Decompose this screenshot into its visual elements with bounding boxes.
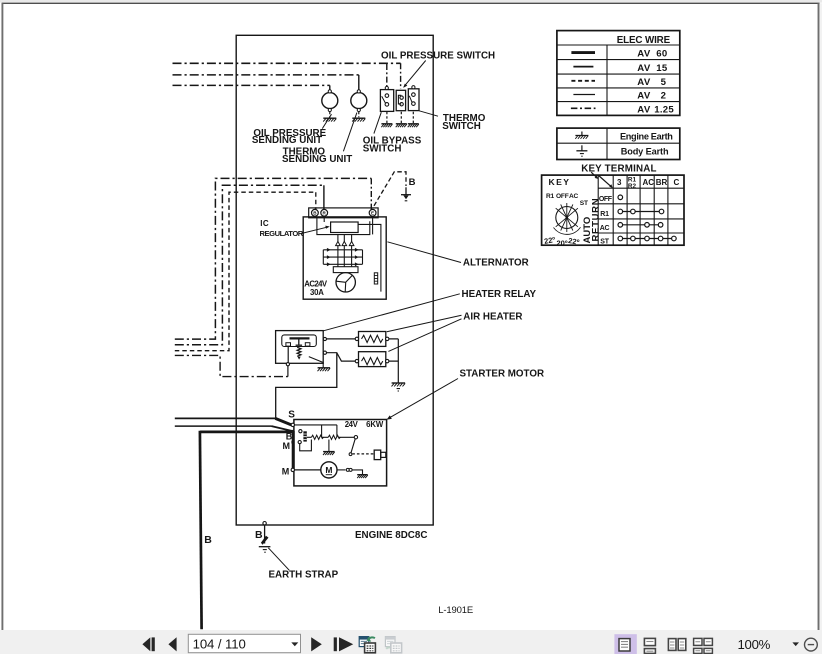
thermo switch ground stem bbox=[412, 112, 414, 123]
svg-text:M: M bbox=[283, 441, 291, 451]
ELEC WIRE legend table bbox=[557, 31, 680, 116]
alternator outer box bbox=[303, 217, 386, 299]
svg-text:OIL PRESSURE SWITCH: OIL PRESSURE SWITCH bbox=[381, 51, 495, 62]
earth strap terminal on engine boundary bbox=[263, 522, 266, 525]
heater relay right terminal upper bbox=[323, 337, 326, 340]
ground engine earth under oil pressure sending unit bbox=[323, 118, 336, 121]
svg-text:20º: 20º bbox=[557, 238, 568, 247]
wire cable L2 to starter B bbox=[175, 425, 272, 427]
wire bundle D dash-dot (to heater relay coil) bbox=[175, 355, 288, 376]
svg-text:AC: AC bbox=[643, 178, 655, 187]
air heater R1 (upper) bbox=[359, 332, 386, 347]
row AC contacts bbox=[620, 224, 660, 226]
alternator inner wire loop bbox=[317, 218, 370, 235]
coil R1 zigzag bbox=[311, 435, 323, 439]
ground engine earth under oil bypass switch bbox=[381, 124, 392, 127]
wire dashed diagonal to node B bbox=[374, 172, 406, 206]
oil pressure sending unit ground stem bbox=[329, 112, 331, 118]
wire M to motor bbox=[295, 469, 321, 471]
svg-text:B: B bbox=[255, 529, 263, 541]
wire W1 vertical drop to oil pressure switch bbox=[400, 63, 402, 89]
wire heater relay terminal to bundle D bbox=[287, 366, 289, 377]
alternator terminal strip bbox=[309, 208, 378, 218]
oil pressure switch bbox=[396, 90, 405, 110]
wire C vertical drop dashed bbox=[315, 192, 317, 209]
stator housing rect bbox=[333, 267, 358, 273]
svg-text:ST: ST bbox=[580, 200, 588, 207]
M terminal pair bbox=[291, 441, 294, 444]
wire L1 diagonal to S terminal bbox=[275, 418, 291, 425]
wire W1 branch drop to oil bypass switch bbox=[386, 64, 388, 86]
ground engine earth under heater relay bbox=[318, 368, 331, 371]
M terminal loop wire bbox=[300, 440, 312, 451]
alternator terminal B bbox=[312, 209, 319, 216]
starter internal thick cable bbox=[292, 431, 295, 470]
svg-text:5: 5 bbox=[661, 77, 667, 88]
toolbar zoom dropdown caret bbox=[792, 642, 799, 646]
svg-text:IC: IC bbox=[260, 219, 269, 228]
heater right bus wire bbox=[389, 339, 398, 383]
heater relay left terminal wire bbox=[287, 346, 289, 362]
svg-text:60: 60 bbox=[656, 49, 667, 60]
toolbar next view button (disabled) bbox=[385, 637, 401, 653]
toolbar last page button bbox=[334, 637, 354, 651]
key terminal header diagonal cell bbox=[599, 176, 612, 188]
leader earth strap bbox=[268, 548, 289, 571]
page right border bbox=[818, 3, 820, 630]
ground engine earth under thermo switch bbox=[408, 124, 419, 127]
svg-text:ST: ST bbox=[600, 239, 609, 246]
wire junction down to starter S feed bbox=[276, 353, 337, 419]
svg-text:AIR HEATER: AIR HEATER bbox=[463, 312, 522, 323]
svg-text:HEATER RELAY: HEATER RELAY bbox=[462, 289, 537, 300]
earth strap arrow bbox=[261, 536, 269, 545]
solenoid coil bbox=[303, 431, 306, 441]
oil bypass switch ground stem bbox=[386, 112, 388, 123]
alternator inner wire from R terminal bbox=[323, 218, 325, 222]
toolbar facing continuous layout button bbox=[694, 638, 713, 653]
alternator inner wire from E terminal bbox=[372, 216, 374, 234]
svg-text:AV: AV bbox=[637, 105, 651, 116]
svg-text:E: E bbox=[371, 211, 374, 216]
svg-text:SENDING UNIT: SENDING UNIT bbox=[282, 154, 352, 165]
toolbar continuous layout button bbox=[644, 638, 655, 653]
svg-text:R1: R1 bbox=[600, 211, 609, 218]
svg-text:Body Earth: Body Earth bbox=[621, 147, 669, 157]
svg-text:OFF: OFF bbox=[556, 193, 569, 200]
rectifier bridge diode columns bbox=[338, 235, 352, 267]
wire connector to ground bbox=[352, 470, 362, 474]
svg-text:L-1901E: L-1901E bbox=[438, 605, 473, 616]
page left border bbox=[1, 3, 3, 630]
svg-text:R2: R2 bbox=[628, 183, 637, 190]
toolbar first page button bbox=[142, 637, 154, 651]
heater relay right terminal lower bbox=[323, 351, 326, 354]
row R1 contacts bbox=[620, 211, 661, 213]
leader to air heater R1 bbox=[387, 315, 462, 332]
svg-text:ELEC WIRE: ELEC WIRE bbox=[617, 35, 671, 46]
svg-text:AV: AV bbox=[637, 77, 651, 88]
thermo switch bbox=[408, 86, 419, 111]
M lower terminal bbox=[291, 468, 294, 471]
wire bundle B dash-dot (to alternator R terminal) bbox=[175, 185, 324, 344]
thermo sending unit bbox=[351, 90, 367, 112]
svg-text:ENGINE 8DC8C: ENGINE 8DC8C bbox=[355, 530, 427, 541]
wire A vertical drop to alternator right terminal bbox=[370, 178, 372, 209]
wire W3 vertical drop bbox=[329, 85, 331, 90]
coil R2 zigzag bbox=[328, 435, 340, 439]
air heater R2 (lower) bbox=[359, 352, 386, 367]
svg-text:SWITCH: SWITCH bbox=[442, 121, 481, 132]
wire W2 vertical drop bbox=[358, 75, 360, 90]
svg-text:104 / 110: 104 / 110 bbox=[193, 636, 246, 651]
ground engine earth in starter bbox=[323, 452, 335, 455]
earth legend table bbox=[557, 128, 680, 159]
svg-text:3: 3 bbox=[617, 178, 622, 187]
toolbar facing layout button bbox=[668, 639, 685, 651]
viewer top gray strip bbox=[0, 0, 822, 3]
B terminal pair bbox=[291, 430, 294, 433]
dashed link to plunger bbox=[352, 453, 373, 455]
row OFF contact bbox=[618, 195, 623, 200]
page top border bbox=[2, 2, 820, 4]
IC regulator U1 bbox=[331, 222, 359, 233]
ground body earth at node B bbox=[401, 187, 411, 201]
svg-text:B: B bbox=[409, 177, 416, 188]
svg-text:B: B bbox=[204, 534, 212, 546]
svg-text:2: 2 bbox=[661, 91, 667, 102]
leader to thermo sending unit bbox=[343, 113, 357, 152]
svg-text:Engine Earth: Engine Earth bbox=[620, 132, 673, 142]
svg-text:100%: 100% bbox=[738, 637, 771, 652]
wire bundle C dashed (to alternator B terminal) bbox=[175, 192, 316, 351]
starter top inner wire from S bbox=[295, 425, 337, 437]
wire thick battery cable B horizontal bbox=[200, 431, 292, 434]
wire bundle A dash-dot (to alternator E terminal) bbox=[175, 178, 371, 339]
wire W1 dash-dot to oil pressure switch bbox=[173, 62, 401, 64]
resistor line with hold-in coils bbox=[307, 436, 354, 438]
toolbar previous view button bbox=[359, 637, 375, 653]
rectifier bridge rails bbox=[323, 250, 362, 264]
toolbar single page layout button (selected) bbox=[614, 634, 636, 654]
switch contact pivot bbox=[354, 436, 357, 439]
heater relay coil bbox=[297, 347, 301, 356]
svg-text:KEY: KEY bbox=[549, 177, 571, 187]
svg-text:15: 15 bbox=[656, 63, 668, 74]
svg-text:SWITCH: SWITCH bbox=[363, 144, 402, 155]
plunger bbox=[374, 450, 381, 460]
heater relay contact arm to ground bbox=[309, 357, 323, 368]
svg-text:REGULATOR: REGULATOR bbox=[260, 229, 304, 238]
S terminal bbox=[291, 423, 294, 426]
svg-text:AV: AV bbox=[637, 63, 651, 74]
svg-text:M: M bbox=[282, 466, 290, 476]
svg-text:30A: 30A bbox=[310, 288, 324, 297]
ground engine earth for starter motor bbox=[357, 475, 368, 478]
starter motor box bbox=[294, 420, 387, 486]
leader to thermo switch bbox=[419, 111, 438, 116]
leader to IC regulator bbox=[301, 227, 327, 233]
alternator inner right wire bbox=[358, 224, 381, 291]
row ST contacts bbox=[620, 238, 674, 240]
wire relay to heater R1 bbox=[327, 338, 356, 340]
key terminal table frame bbox=[542, 175, 684, 245]
key rotary switch bbox=[554, 203, 581, 234]
engine boundary rectangle ENGINE 8DC8C bbox=[236, 35, 433, 525]
wire cable L1 to starter S bbox=[175, 417, 275, 419]
wire W2 dash-dot to thermo sending unit bbox=[173, 74, 359, 76]
alternator brush element bbox=[374, 273, 377, 284]
toolbar next page button bbox=[311, 637, 322, 651]
ground engine earth for air heaters bbox=[392, 383, 406, 386]
svg-text:AV: AV bbox=[637, 91, 651, 102]
heater relay K1 box bbox=[276, 331, 324, 364]
toolbar zoom out button bbox=[805, 638, 818, 651]
oil pressure switch ground stem bbox=[400, 112, 402, 123]
svg-text:M: M bbox=[325, 465, 332, 475]
wire thick battery cable B vertical bbox=[200, 431, 202, 630]
leader to heater relay bbox=[323, 294, 459, 331]
svg-text:RETURN: RETURN bbox=[590, 198, 601, 242]
toolbar background bbox=[0, 630, 822, 654]
svg-text:EARTH STRAP: EARTH STRAP bbox=[269, 570, 339, 581]
leader to alternator bbox=[387, 242, 461, 263]
svg-text:STARTER MOTOR: STARTER MOTOR bbox=[460, 369, 545, 380]
leader to oil bypass switch bbox=[374, 112, 381, 133]
svg-text:ALTERNATOR: ALTERNATOR bbox=[463, 257, 529, 268]
leader to starter motor with arrowhead bbox=[389, 379, 458, 419]
oil pressure sending unit bbox=[322, 90, 338, 112]
wire motor to connector bbox=[337, 469, 346, 471]
svg-text:BR: BR bbox=[656, 178, 668, 187]
alternator terminal E bbox=[369, 209, 376, 216]
svg-text:C: C bbox=[674, 178, 680, 187]
svg-text:AC: AC bbox=[569, 193, 579, 200]
svg-text:1.25: 1.25 bbox=[654, 105, 674, 116]
switch arm bbox=[351, 439, 355, 453]
svg-text:SENDING UNIT: SENDING UNIT bbox=[252, 135, 322, 146]
svg-text:AV: AV bbox=[637, 49, 651, 60]
wire relay to heater R2 bbox=[327, 353, 356, 361]
leader to oil pressure sending unit bbox=[322, 114, 331, 128]
rectifier diode arrows bbox=[336, 241, 341, 245]
leader to oil pressure switch bbox=[404, 61, 426, 87]
svg-text:24V: 24V bbox=[345, 420, 359, 429]
svg-text:S: S bbox=[288, 409, 295, 420]
oil bypass switch bbox=[380, 86, 393, 111]
ground body earth at earth strap bbox=[259, 546, 271, 548]
ground stem mid starter bbox=[328, 440, 330, 452]
wire L2 diagonal to B terminal bbox=[272, 426, 292, 431]
ground engine earth under oil pressure switch bbox=[396, 124, 407, 127]
heater relay bottom-left terminal bbox=[286, 363, 289, 366]
heater relay contact assembly bbox=[282, 335, 317, 347]
alternator terminal R bbox=[321, 209, 328, 216]
stator winding circle bbox=[336, 273, 355, 292]
ground engine earth under thermo sending unit bbox=[352, 118, 365, 121]
leader to air heater R2 bbox=[388, 319, 461, 352]
svg-text:22º: 22º bbox=[568, 236, 581, 247]
motor M1 bbox=[321, 462, 337, 478]
svg-text:6KW: 6KW bbox=[366, 420, 384, 429]
thermo sending unit ground stem bbox=[358, 112, 360, 118]
toolbar previous page button bbox=[168, 637, 176, 651]
wire B vertical drop bbox=[323, 185, 325, 209]
earth strap wire bbox=[264, 525, 266, 544]
svg-text:R1: R1 bbox=[546, 193, 555, 200]
connector bbox=[346, 468, 349, 471]
wire W3 dash-dot to oil pressure sending unit bbox=[173, 84, 330, 86]
toolbar page number box bbox=[188, 634, 300, 652]
